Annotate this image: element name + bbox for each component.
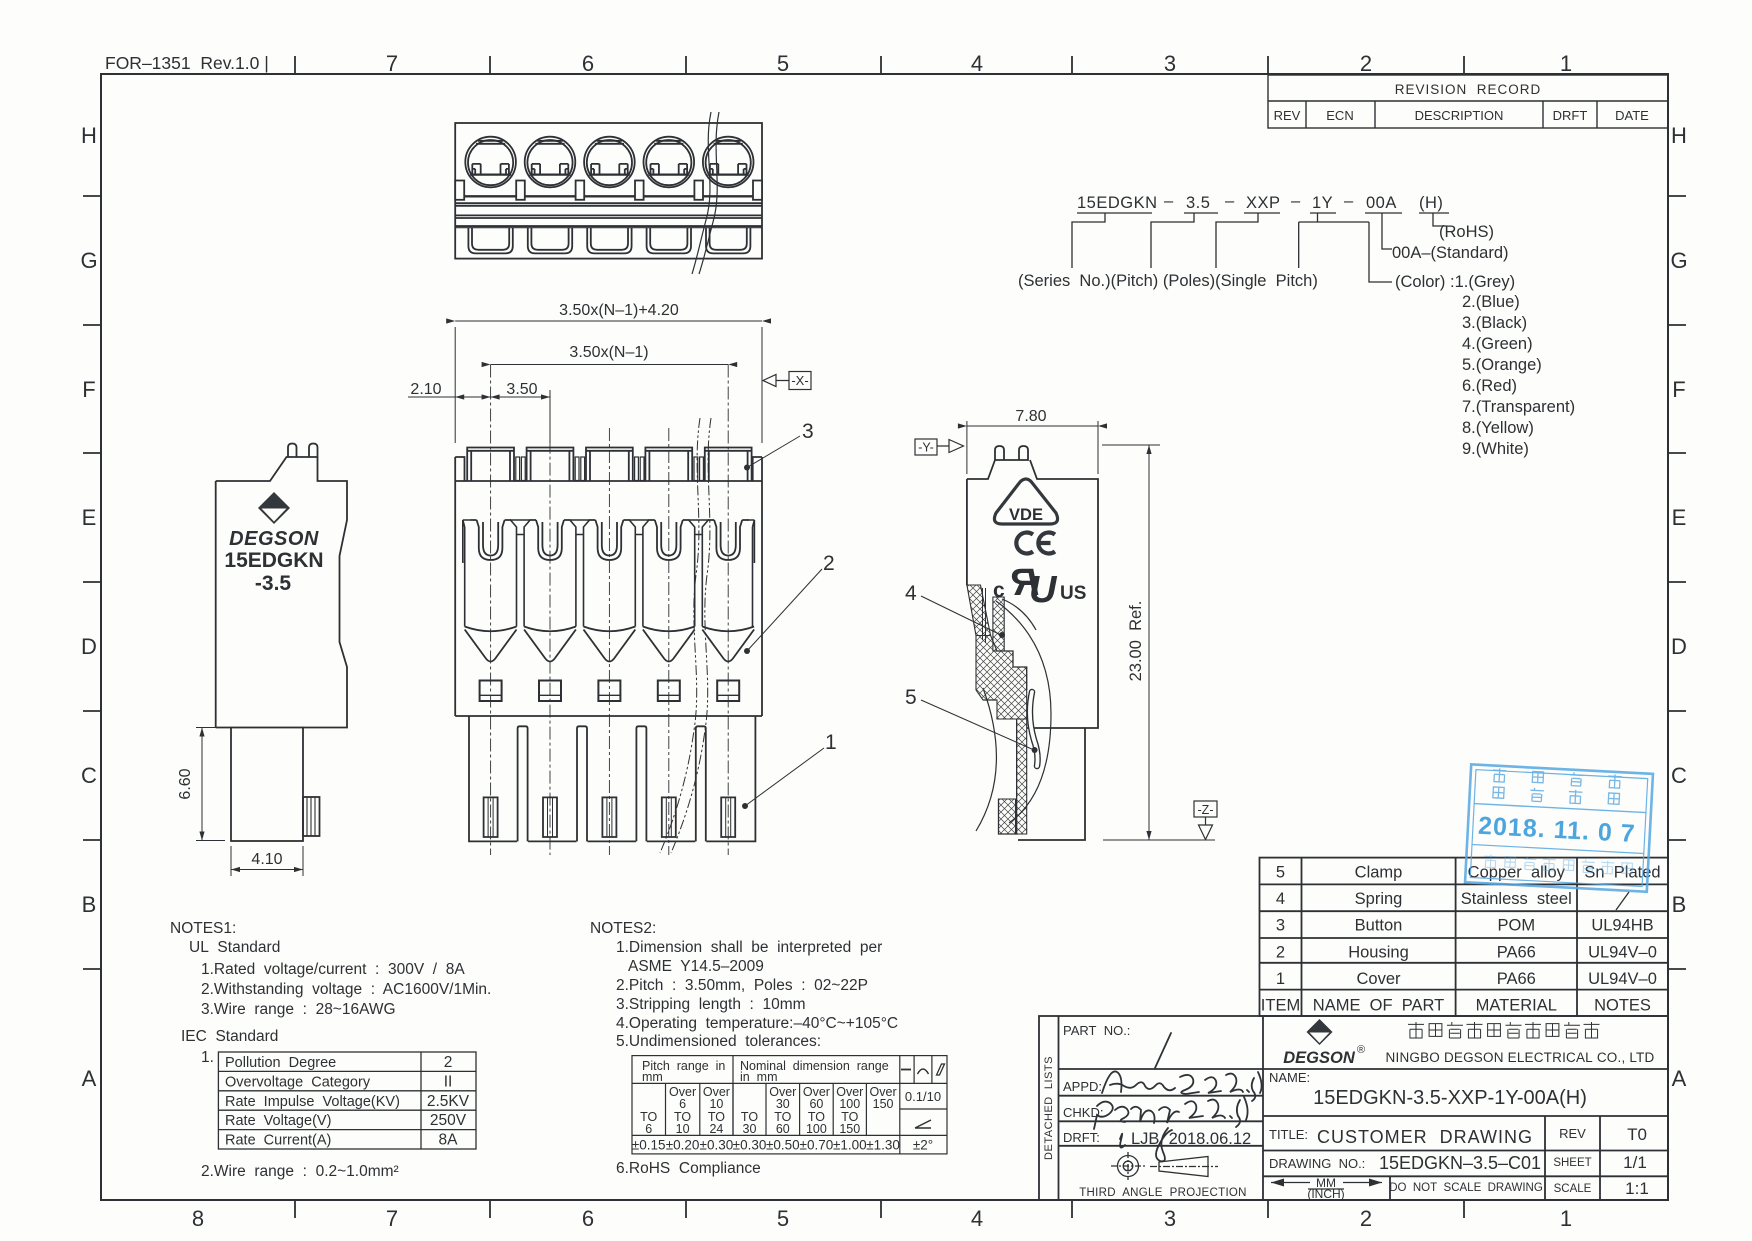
svg-text:±0.70: ±0.70 [800,1138,834,1153]
svg-text:15EDGKN: 15EDGKN [1077,194,1158,212]
svg-text:1.Rated voltage/current : 3: 1.Rated voltage/current : 300V / 8A [201,961,465,978]
svg-text:mm: mm [642,1070,663,1084]
svg-text:Cover: Cover [1356,970,1401,988]
svg-text:7.80: 7.80 [1015,408,1046,425]
svg-text:UL94V–0: UL94V–0 [1588,943,1657,961]
svg-text:6: 6 [582,1206,594,1231]
svg-text:15EDGKN-3.5-XXP-1Y-00A(H): 15EDGKN-3.5-XXP-1Y-00A(H) [1313,1087,1587,1109]
svg-text:5: 5 [777,51,789,76]
svg-text:US: US [1060,583,1086,604]
svg-text:3: 3 [1164,51,1176,76]
svg-text:G: G [1670,248,1687,273]
svg-text:in mm: in mm [740,1070,778,1084]
svg-text:5.Undimensioned tolerances:: 5.Undimensioned tolerances: [616,1033,821,1050]
svg-text:4: 4 [905,582,917,605]
svg-text:Rate Current(A): Rate Current(A) [225,1133,331,1149]
svg-text:6.RoHS Compliance: 6.RoHS Compliance [616,1160,761,1177]
svg-text:5: 5 [777,1206,789,1231]
svg-text:FOR–1351 Rev.1.0 |: FOR–1351 Rev.1.0 | [105,53,269,73]
svg-text:Stainless steel: Stainless steel [1461,890,1572,908]
svg-text:±1.00: ±1.00 [833,1138,867,1153]
svg-text:3: 3 [1276,917,1285,935]
svg-text:(Series No.)(Pitch) (Poles)(S: (Series No.)(Pitch) (Poles)(Single Pitch… [1018,272,1318,290]
svg-text:100: 100 [806,1122,827,1136]
svg-text:NINGBO DEGSON ELECTRICAL CO.,: NINGBO DEGSON ELECTRICAL CO., LTD [1386,1050,1655,1065]
svg-text:PA66: PA66 [1497,970,1536,988]
svg-text:2.5KV: 2.5KV [427,1093,470,1110]
svg-text:REV: REV [1559,1126,1586,1141]
svg-text:T0: T0 [1627,1125,1647,1144]
svg-text:±0.50: ±0.50 [766,1138,800,1153]
svg-text:4.10: 4.10 [251,851,282,868]
svg-text:15EDGKN: 15EDGKN [224,549,323,572]
svg-text:-Y-: -Y- [918,441,934,455]
svg-text:DEGSON: DEGSON [1283,1049,1356,1067]
svg-text:2: 2 [444,1054,453,1071]
svg-text:2.(Blue): 2.(Blue) [1462,293,1520,311]
svg-text:F: F [1672,377,1685,402]
svg-text:6: 6 [645,1122,652,1136]
svg-text:Clamp: Clamp [1355,864,1403,882]
svg-text:DRFT:: DRFT: [1063,1130,1100,1145]
svg-text:IEC Standard: IEC Standard [181,1028,278,1045]
svg-text:REVISION RECORD: REVISION RECORD [1395,82,1542,97]
svg-text:00A: 00A [1366,194,1397,212]
svg-text:PART NO.:: PART NO.: [1063,1023,1130,1038]
svg-text:POM: POM [1498,917,1536,935]
svg-text:G: G [80,248,97,273]
svg-text:SHEET: SHEET [1553,1157,1591,1169]
svg-text:–: – [1164,192,1174,210]
svg-text:SCALE: SCALE [1554,1183,1592,1195]
svg-text:8: 8 [192,1206,204,1231]
svg-text:DRAWING NO.:: DRAWING NO.: [1269,1156,1365,1171]
svg-text:B: B [1672,892,1687,917]
svg-text:1/1: 1/1 [1623,1153,1647,1172]
svg-text:1: 1 [825,731,837,754]
svg-text:ITEM: ITEM [1261,997,1300,1015]
svg-text:A: A [82,1066,97,1091]
svg-text:(Color) :1.(Grey): (Color) :1.(Grey) [1395,273,1515,291]
svg-text:Housing: Housing [1348,943,1409,961]
svg-text:9.(White): 9.(White) [1462,440,1529,458]
svg-text:3: 3 [1164,1206,1176,1231]
svg-text:6: 6 [582,51,594,76]
svg-text:ECN: ECN [1326,108,1353,123]
svg-text:4.Operating temperature:–40°C: 4.Operating temperature:–40°C~+105°C [616,1015,898,1032]
svg-text:UL Standard: UL Standard [189,939,280,956]
svg-text:NOTES: NOTES [1594,997,1651,1015]
svg-text:THIRD ANGLE PROJECTION: THIRD ANGLE PROJECTION [1079,1187,1247,1199]
svg-text:30: 30 [743,1122,757,1136]
svg-text:±0.30: ±0.30 [733,1138,767,1153]
svg-text:6: 6 [679,1097,686,1111]
svg-text:1.Dimension shall be interp: 1.Dimension shall be interpreted per [616,939,882,956]
svg-text:4: 4 [1276,890,1285,908]
svg-text:PA66: PA66 [1497,943,1536,961]
svg-text:150: 150 [873,1097,894,1111]
svg-text:D: D [1671,634,1687,659]
svg-text:±1.30: ±1.30 [866,1138,900,1153]
svg-text:Rate Impulse Voltage(KV): Rate Impulse Voltage(KV) [225,1094,400,1110]
svg-text:3.50x(N–1)+4.20: 3.50x(N–1)+4.20 [559,302,679,319]
svg-text:C: C [81,763,97,788]
svg-text:C: C [1671,763,1687,788]
svg-text:±0.15: ±0.15 [632,1138,666,1153]
svg-text:UL94HB: UL94HB [1591,917,1653,935]
svg-text:10: 10 [709,1097,723,1111]
svg-text:REV: REV [1274,108,1301,123]
svg-text:VDE: VDE [1009,506,1043,524]
svg-text:1: 1 [1560,1206,1572,1231]
svg-text:CUSTOMER DRAWING: CUSTOMER DRAWING [1317,1127,1533,1147]
svg-text:–: – [1291,192,1301,210]
svg-text:3.50: 3.50 [506,381,537,398]
svg-text:®: ® [1357,1044,1365,1056]
svg-text:3.Wire range : 28~16AWG: 3.Wire range : 28~16AWG [201,1001,396,1018]
svg-text:6.(Red): 6.(Red) [1462,377,1517,395]
svg-text:Spring: Spring [1355,890,1403,908]
svg-text:60: 60 [809,1097,823,1111]
svg-text:H: H [81,123,97,148]
svg-text:A: A [1672,1066,1687,1091]
svg-text:–: – [1344,192,1354,210]
svg-text:NAME:: NAME: [1269,1070,1310,1085]
svg-text:00A–(Standard): 00A–(Standard) [1392,244,1509,262]
svg-text:8A: 8A [439,1132,459,1149]
svg-text:250V: 250V [430,1112,467,1129]
svg-text:8.(Yellow): 8.(Yellow) [1462,419,1534,437]
svg-text:100: 100 [839,1097,860,1111]
svg-text:TITLE:: TITLE: [1269,1127,1308,1142]
svg-text:LJB 2018.06.12: LJB 2018.06.12 [1131,1130,1251,1148]
svg-text:60: 60 [776,1122,790,1136]
svg-text:±0.30: ±0.30 [700,1138,734,1153]
svg-text:E: E [1672,505,1687,530]
svg-text:2.10: 2.10 [410,381,441,398]
svg-text:DRFT: DRFT [1553,108,1588,123]
svg-text:E: E [82,505,97,530]
svg-text:XXP: XXP [1246,194,1281,212]
svg-text:DO NOT SCALE DRAWING: DO NOT SCALE DRAWING [1389,1182,1543,1194]
svg-text:MATERIAL: MATERIAL [1476,997,1557,1015]
svg-text:D: D [81,634,97,659]
svg-text:-X-: -X- [791,373,808,388]
svg-text:1: 1 [1276,970,1285,988]
svg-text:1Y: 1Y [1312,194,1333,212]
svg-text:7: 7 [386,1206,398,1231]
svg-text:NOTES2:: NOTES2: [590,920,656,937]
svg-text:Copper alloy: Copper alloy [1468,864,1566,882]
svg-text:Rate Voltage(V): Rate Voltage(V) [225,1113,331,1129]
svg-text:±2°: ±2° [913,1138,933,1153]
svg-text:3: 3 [802,420,814,443]
svg-text:4: 4 [971,1206,983,1231]
svg-text:10: 10 [676,1122,690,1136]
svg-text:B: B [82,892,97,917]
svg-text:II: II [444,1073,453,1090]
svg-text:30: 30 [776,1097,790,1111]
svg-text:DETACHED LISTS: DETACHED LISTS [1043,1056,1055,1160]
svg-text:1.: 1. [201,1049,214,1066]
svg-text:1:1: 1:1 [1625,1179,1649,1198]
svg-text:-Z-: -Z- [1198,803,1214,817]
svg-text:-3.5: -3.5 [255,572,292,595]
svg-text:150: 150 [839,1122,860,1136]
svg-text:3.(Black): 3.(Black) [1462,314,1527,332]
svg-text:DESCRIPTION: DESCRIPTION [1415,108,1504,123]
svg-text:3.50x(N–1): 3.50x(N–1) [569,344,648,361]
svg-text:APPD:: APPD: [1063,1079,1102,1094]
svg-text:Pollution Degree: Pollution Degree [225,1055,336,1071]
svg-text:15EDGKN–3.5–C01: 15EDGKN–3.5–C01 [1379,1153,1541,1173]
svg-text:H: H [1671,123,1687,148]
svg-text:2: 2 [1360,51,1372,76]
svg-text:7.(Transparent): 7.(Transparent) [1462,398,1575,416]
svg-text:24: 24 [709,1122,723,1136]
svg-text:2: 2 [1360,1206,1372,1231]
svg-text:2.Wire range : 0.2~1.0mm²: 2.Wire range : 0.2~1.0mm² [201,1163,399,1180]
svg-text:2: 2 [823,552,835,575]
svg-text:(RoHS): (RoHS) [1439,223,1494,241]
svg-text:Overvoltage Category: Overvoltage Category [225,1074,371,1090]
svg-text:ASME Y14.5–2009: ASME Y14.5–2009 [628,958,764,975]
svg-text:0.1/10: 0.1/10 [905,1089,941,1104]
svg-text:DEGSON: DEGSON [229,528,319,550]
svg-text:3.Stripping length : 10mm: 3.Stripping length : 10mm [616,996,806,1013]
svg-text:7: 7 [386,51,398,76]
svg-text:4: 4 [971,51,983,76]
svg-text:Button: Button [1355,917,1403,935]
svg-text:DATE: DATE [1615,108,1649,123]
svg-text:5: 5 [1276,864,1285,882]
svg-text:5.(Orange): 5.(Orange) [1462,356,1542,374]
svg-text:NAME OF PART: NAME OF PART [1313,997,1444,1015]
svg-text:NOTES1:: NOTES1: [170,920,236,937]
svg-text:2.Withstanding voltage : AC: 2.Withstanding voltage : AC1600V/1Min. [201,981,491,998]
svg-text:–: – [1225,192,1235,210]
svg-text:23.00 Ref.: 23.00 Ref. [1127,601,1145,682]
svg-text:±0.20: ±0.20 [666,1138,700,1153]
svg-text:c: c [993,579,1005,602]
svg-text:5: 5 [905,686,917,709]
svg-text:F: F [82,377,95,402]
svg-text:UL94V–0: UL94V–0 [1588,970,1657,988]
svg-text:2.Pitch : 3.50mm, Poles :: 2.Pitch : 3.50mm, Poles : 02~22P [616,977,868,994]
svg-text:3.5: 3.5 [1186,194,1210,212]
svg-text:(H): (H) [1419,194,1443,212]
svg-text:1: 1 [1560,51,1572,76]
svg-text:U: U [1029,569,1058,611]
svg-text:2: 2 [1276,943,1285,961]
svg-text:4.(Green): 4.(Green) [1462,335,1533,353]
svg-text:6.60: 6.60 [177,768,194,799]
svg-text:CHKD:: CHKD: [1063,1105,1103,1120]
